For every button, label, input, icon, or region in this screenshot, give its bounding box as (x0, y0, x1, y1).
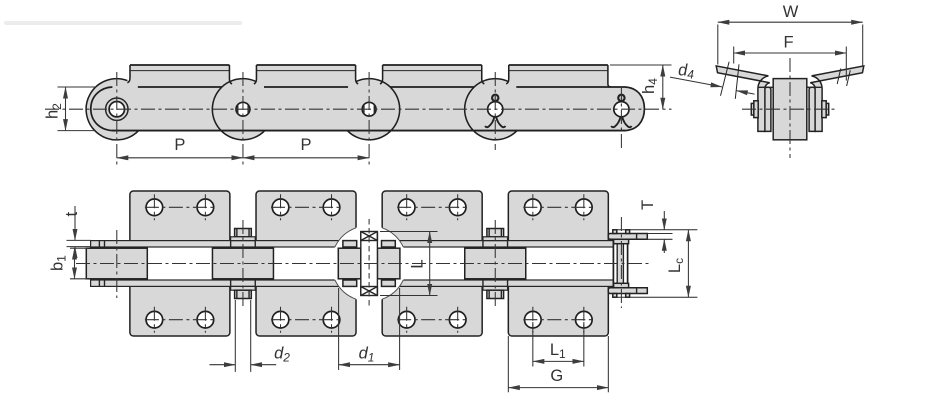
svg-text:F: F (783, 34, 793, 52)
local section break arcs (335, 228, 356, 247)
svg-text:b1: b1 (49, 255, 69, 271)
inner plate right (809, 87, 815, 131)
pin 2: pin with flats (236, 102, 250, 116)
dimension L1 (532, 322, 534, 367)
vertical center line pin 4 (494, 72, 496, 150)
hole center lines A3 top (397, 206, 467, 208)
dimension G (507, 336, 509, 392)
horizontal center line, side view (45, 108, 672, 110)
pin 3 riveted end top (section X) (361, 232, 378, 241)
attachment plate A4 (508, 191, 608, 336)
local section circle at pin 3 (331, 226, 407, 302)
vertical center line pin 1 (plan) (116, 230, 118, 298)
end link pin 5 plates (613, 241, 627, 287)
dimension W (717, 25, 719, 65)
attachment segment 4 top edge (509, 64, 608, 66)
svg-text:W: W (783, 3, 799, 21)
roller R2, plan view (212, 248, 273, 279)
pin 3: pin with flats (362, 102, 376, 116)
wing hole lines right (837, 69, 841, 85)
dimension h4 (610, 64, 672, 66)
attachment bottom face line / Lc extension bottom (612, 296, 697, 298)
svg-text:L1: L1 (550, 341, 566, 361)
attachment segment 3 left edge (380, 65, 383, 84)
attachment segment 2 right edge (356, 65, 359, 84)
attachment bent edge bar, bottom (91, 280, 614, 286)
plate A1 top holes (146, 199, 163, 216)
pin end right (822, 101, 826, 118)
plate A3 bottom holes (398, 311, 415, 328)
svg-text:h2: h2 (44, 103, 64, 119)
cotter legs pin 4 (485, 117, 494, 128)
dimension b1 (70, 247, 88, 249)
vertical center line pin 3 (368, 72, 370, 165)
link plate band bottom edge (112, 130, 625, 132)
pin 3 riveted end bottom (section X) (361, 287, 378, 296)
attachment segment 4 left edge (506, 65, 509, 84)
pin 4 flange lines (482, 241, 484, 247)
faint watermark remnant (4, 21, 242, 25)
center lines, section view (789, 58, 791, 158)
hole center lines A3 bottom (397, 319, 467, 321)
cotter legs pin 5 (611, 117, 620, 128)
pin end left (754, 101, 758, 118)
svg-text:P: P (174, 136, 185, 154)
attachment segment 1 bend line (130, 70, 229, 72)
dimension T (663, 211, 665, 230)
roller 3 outline (356, 79, 383, 82)
hole center lines A4 bottom (523, 319, 593, 321)
attachment segment 4 right edge (608, 65, 611, 87)
roller 2 outline (229, 79, 256, 82)
plate A4 top holes (525, 199, 542, 216)
bent attachment bar bottom, edge view (608, 288, 647, 294)
vertical center line pin 2 (plan) (242, 220, 244, 306)
svg-text:G: G (550, 367, 563, 385)
dimension F (734, 52, 847, 54)
bush flange lines pin 1 (104, 241, 106, 247)
pin plate end arc (right cap) (625, 87, 644, 131)
attachment plate A3 (382, 191, 482, 336)
pin 3 center line (dashed) (368, 219, 370, 308)
F extension left (733, 47, 735, 64)
pin 4: pin with cotter (488, 102, 503, 117)
pin 5 rivet ends top (613, 230, 617, 234)
attachment segment 2 left edge (254, 65, 257, 84)
pin 2 head, plan bottom (235, 290, 252, 298)
hole center lines A2 top (271, 206, 341, 208)
link plate band top edge (138, 86, 222, 88)
vertical center line pin 5 (620, 86, 622, 150)
pin 3 shaft (361, 232, 378, 296)
vertical center line pin 1 (116, 72, 118, 165)
roller R4, plan view (465, 248, 526, 279)
svg-text:t: t (63, 211, 81, 216)
attachment plate A1 (130, 191, 230, 336)
attachment segment 1 top edge (130, 64, 229, 66)
bush blocks pin 3 (338, 248, 361, 279)
hole center lines A1 bottom (145, 319, 215, 321)
attachment bent edge bar, top (91, 241, 614, 247)
bent attachment bar top, edge view (608, 234, 647, 240)
pin 5 washer top (614, 239, 629, 243)
plate A1 bottom holes (146, 311, 163, 328)
svg-text:d1: d1 (359, 345, 375, 365)
svg-text:P: P (300, 136, 311, 154)
plate A2 bottom holes (272, 311, 289, 328)
pin 4 washer top (483, 237, 508, 241)
inner plate left (765, 87, 771, 131)
pin 1: bush and pin circles (106, 98, 128, 120)
svg-text:h4: h4 (640, 78, 660, 94)
svg-text:Lc: Lc (666, 258, 686, 273)
plate A2 top holes (272, 199, 289, 216)
pin 5 washer bottom (614, 283, 629, 287)
attachment segment 1 left edge (127, 65, 130, 83)
dimension P (2) (243, 157, 369, 159)
attachment segment 4 bend line (509, 70, 608, 72)
dimension t (67, 239, 92, 241)
roller R1, plan view (86, 248, 147, 279)
bent attachment plate right (810, 66, 864, 131)
pin 2 head, plan top (235, 229, 252, 237)
cotter head pin 4 (492, 95, 498, 101)
chain link plate band fill (86, 65, 644, 140)
svg-text:d4: d4 (678, 62, 694, 82)
attachment segment 2 bend line (256, 70, 355, 72)
cotter head pin 5 (618, 95, 624, 101)
hole center lines A2 bottom (271, 319, 341, 321)
T extension lines (647, 233, 672, 235)
roller 4 outline (482, 79, 509, 82)
bush flanges pin 3 (343, 241, 357, 247)
svg-text:T: T (639, 200, 657, 210)
pin 5 rivet ends bottom (613, 294, 617, 298)
dimension d4 (670, 77, 722, 87)
pin 4 head, plan top (487, 229, 504, 237)
vertical center line pin 2 (242, 72, 244, 165)
attachment segment 3 bend line (383, 70, 482, 72)
pin 2 washer top (231, 237, 256, 241)
hole center lines A4 top (523, 206, 593, 208)
dimension Lc (687, 230, 689, 297)
dimension h2 (58, 86, 97, 88)
svg-text:d2: d2 (274, 345, 290, 365)
dimension d1 (338, 288, 340, 370)
pin 2 flange lines (230, 241, 232, 247)
wing hole lines left (d4 hole) (721, 62, 730, 96)
dimension P (1) (117, 157, 243, 159)
plate A4 bottom holes (525, 311, 542, 328)
horizontal center line, plan view (76, 263, 652, 265)
roller, section (773, 79, 807, 140)
pin 5: pin with cotter (614, 102, 629, 117)
pin 4 washer bottom (483, 286, 508, 290)
roller 1 outline (86, 79, 139, 140)
chain clearance strip (white) (85, 247, 613, 280)
attachment segment 2 top edge (256, 64, 355, 66)
plate A3 top holes (398, 199, 415, 216)
pin 2 washer bottom (231, 286, 256, 290)
pin 4 head, plan bottom (487, 290, 504, 298)
attachment top face line / Lc extension top (612, 229, 697, 231)
dimension d2 (234, 300, 236, 372)
attachment segment 3 top edge (383, 64, 482, 66)
attachment segment 3 right edge (482, 65, 485, 84)
vertical center line pin 4 (plan) (494, 220, 496, 306)
F extension right (845, 47, 847, 81)
bush plate end arc (left cap) (91, 87, 113, 131)
bent attachment plate left (716, 66, 770, 131)
attachment segment 1 right edge (229, 65, 232, 84)
svg-text:L: L (407, 259, 426, 268)
dimension L (380, 231, 438, 233)
attachment plate A2 (256, 191, 356, 336)
vertical center line pin 5 (plan) (620, 217, 622, 308)
inner plate top edge lines (758, 86, 773, 88)
hole center lines A1 top (145, 206, 215, 208)
